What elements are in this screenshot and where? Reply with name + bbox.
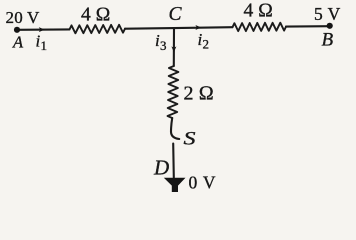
svg-text:1: 1 <box>41 38 48 53</box>
wire A to R1 <box>17 28 70 30</box>
switch S curve <box>171 118 179 139</box>
resistor R1 4ohm <box>70 25 126 34</box>
wire R1 to node C <box>125 27 174 30</box>
svg-text:4 Ω: 4 Ω <box>244 0 274 21</box>
resistor R2 4ohm <box>233 23 287 31</box>
svg-text:3: 3 <box>160 38 167 53</box>
current arrow i3 <box>171 46 176 52</box>
svg-text:2: 2 <box>203 37 210 52</box>
svg-text:B: B <box>322 30 334 51</box>
current arrow i2 <box>195 25 201 30</box>
svg-text:5 V: 5 V <box>314 4 341 24</box>
wire R2 to B <box>286 25 330 27</box>
svg-text:0 V: 0 V <box>189 172 217 192</box>
svg-text:A: A <box>12 32 24 51</box>
svg-text:D: D <box>153 155 169 179</box>
svg-text:4 Ω: 4 Ω <box>81 5 111 26</box>
node A <box>14 27 20 33</box>
svg-text:20 V: 20 V <box>6 8 41 27</box>
wire node C down to R3 <box>173 28 175 66</box>
wire S to D <box>172 144 175 178</box>
wire node C to R2 <box>174 26 233 29</box>
resistor R3 2ohm <box>168 66 179 118</box>
current arrow i1 <box>39 27 45 32</box>
ground symbol <box>164 178 186 192</box>
node B <box>327 23 333 29</box>
svg-text:S: S <box>184 130 196 150</box>
svg-text:C: C <box>169 4 183 25</box>
svg-text:2 Ω: 2 Ω <box>184 83 214 105</box>
